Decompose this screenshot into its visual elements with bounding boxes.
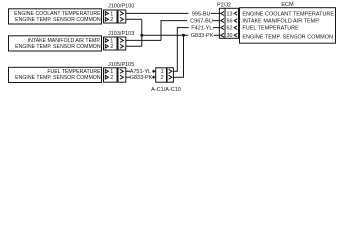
connector P100 socket 2 (120, 17, 124, 21)
svg-text:FUEL TEMPERATURE: FUEL TEMPERATURE (242, 26, 299, 32)
svg-text:ENGINE TEMP. SENSOR COMMON: ENGINE TEMP. SENSOR COMMON (242, 34, 333, 40)
J2 socket pin13 (234, 12, 237, 16)
svg-text:56: 56 (227, 19, 233, 25)
svg-text:62: 62 (227, 26, 233, 32)
sensor box B3 (fuel temp sensor) (9, 67, 102, 82)
connector A-C1/A-C10 plug box (167, 68, 173, 82)
wire F421-YL riser from A-C1 pin1 to P2 pin62 (173, 28, 219, 72)
svg-text:J100/P100: J100/P100 (108, 4, 134, 10)
J2 socket pin62 (234, 26, 237, 30)
svg-text:ENGINE TEMP. SENSOR COMMON: ENGINE TEMP. SENSOR COMMON (15, 44, 101, 50)
wire A751-YL stub from J105 pin1 (126, 70, 130, 72)
svg-text:ECM: ECM (281, 2, 294, 8)
connector A-C1 socket 2 (169, 75, 172, 79)
svg-text:30: 30 (227, 33, 233, 39)
svg-text:INTAKE MANIFOLD AIR TEMP.: INTAKE MANIFOLD AIR TEMP. (242, 19, 320, 25)
connector P2/J2 plug box (219, 8, 225, 38)
connector J105/P105 plug box (118, 68, 126, 82)
svg-text:J105/P105: J105/P105 (108, 62, 134, 68)
svg-text:13: 13 (227, 11, 233, 17)
wire common vertical J100 to J103 (141, 19, 143, 46)
connector P2/J2 pin box (225, 8, 239, 38)
junction dot common at J103 (140, 34, 143, 37)
connector P103 socket 2 (120, 44, 124, 48)
svg-text:2: 2 (161, 75, 164, 81)
svg-text:2: 2 (110, 44, 113, 50)
wire J103 pin1 segment (126, 39, 161, 41)
svg-text:ENGINE TEMP. SENSOR COMMON: ENGINE TEMP. SENSOR COMMON (15, 17, 101, 23)
svg-text:C967-BU: C967-BU (190, 19, 213, 25)
connector A-C1 socket 1 (169, 69, 172, 73)
svg-text:2: 2 (110, 17, 113, 23)
connector J105/P105 pin1 chevron (105, 70, 108, 74)
wire J103 pin2 common segment (126, 45, 142, 47)
wire C967-BU riser and run to P2 pin56 (161, 21, 219, 41)
svg-text:ENGINE TEMP. SENSOR COMMON: ENGINE TEMP. SENSOR COMMON (15, 75, 101, 81)
P2 socket pin13 (221, 11, 224, 15)
connector J100/P100 plug box (118, 10, 126, 23)
sensor box B1 (engine coolant temp sensor) (9, 9, 102, 24)
connector J103/P103 pin1 chevron (105, 39, 108, 43)
connector P105 socket 1 (120, 69, 124, 73)
connector J103/P103 pin2 chevron (105, 45, 108, 49)
J2 socket pin30 (234, 33, 237, 37)
wire J100 pin2 common segment (126, 18, 142, 20)
ECM box (240, 8, 336, 44)
svg-text:G833-PK: G833-PK (130, 75, 153, 81)
P2 socket pin62 (221, 26, 224, 30)
connector P105 socket 2 (120, 75, 124, 79)
J2 socket pin56 (234, 19, 237, 23)
svg-text:995-BU: 995-BU (192, 11, 211, 17)
connector J105/P105 pin2 chevron (105, 75, 108, 79)
connector J105/P105 pin box (104, 68, 118, 82)
svg-text:ENGINE COOLANT TEMPERATURE: ENGINE COOLANT TEMPERATURE (242, 11, 334, 17)
svg-text:2: 2 (110, 75, 113, 81)
wire A751-YL arrow line into A-C1 pin1 (152, 70, 153, 72)
junction dot common at G833 riser (182, 34, 185, 37)
connector J100/P100 pin box (104, 10, 118, 23)
connector J100/P100 pin1 chevron (105, 12, 108, 16)
connector J103/P103 pin box (104, 37, 118, 50)
wire G833-PK stub from J105 pin2 (126, 76, 130, 78)
arrowhead into A-C1 pin2 (153, 75, 156, 79)
svg-text:F421-YL: F421-YL (191, 26, 212, 32)
connector J100/P100 pin2 chevron (105, 18, 108, 22)
svg-text:J103/P103: J103/P103 (108, 31, 134, 37)
P2 socket pin56 (221, 19, 224, 23)
connector J103/P103 plug box (118, 37, 126, 50)
svg-text:G833-PK: G833-PK (191, 33, 214, 39)
svg-text:A-C1/A-C10: A-C1/A-C10 (151, 87, 181, 93)
wire G833-PK arrow line into A-C1 pin2 (152, 76, 153, 78)
wire 995-BU J100 pin1 to P2 pin13 (126, 12, 220, 14)
svg-text:P2/J2: P2/J2 (217, 2, 231, 8)
wire G833-PK common run to P2 pin30 (142, 34, 220, 36)
connector A-C1/A-C10 pin box (156, 68, 167, 82)
connector P100 socket 1 (120, 11, 124, 15)
sensor box B2 (intake manifold air temp sensor) (9, 36, 102, 51)
connector P103 socket 1 (120, 38, 124, 42)
P2 socket pin30 (221, 33, 224, 37)
arrowhead into A-C1 pin1 (153, 70, 156, 74)
wire G833 riser from A-C1 pin2 to common (173, 35, 183, 77)
